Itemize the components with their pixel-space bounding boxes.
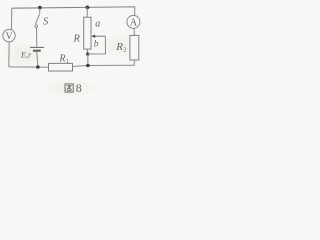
svg-text:A: A	[130, 18, 138, 29]
svg-text:a: a	[95, 18, 100, 29]
svg-text:R: R	[115, 41, 123, 53]
svg-text:E,r: E,r	[20, 51, 32, 60]
svg-text:R: R	[58, 54, 65, 65]
svg-text:R: R	[73, 33, 81, 44]
svg-text:2: 2	[123, 47, 126, 54]
svg-text:V: V	[6, 32, 13, 42]
svg-text:b: b	[94, 40, 99, 50]
svg-text:8: 8	[76, 81, 82, 95]
svg-text:S: S	[43, 16, 49, 27]
svg-text:1: 1	[66, 58, 69, 65]
